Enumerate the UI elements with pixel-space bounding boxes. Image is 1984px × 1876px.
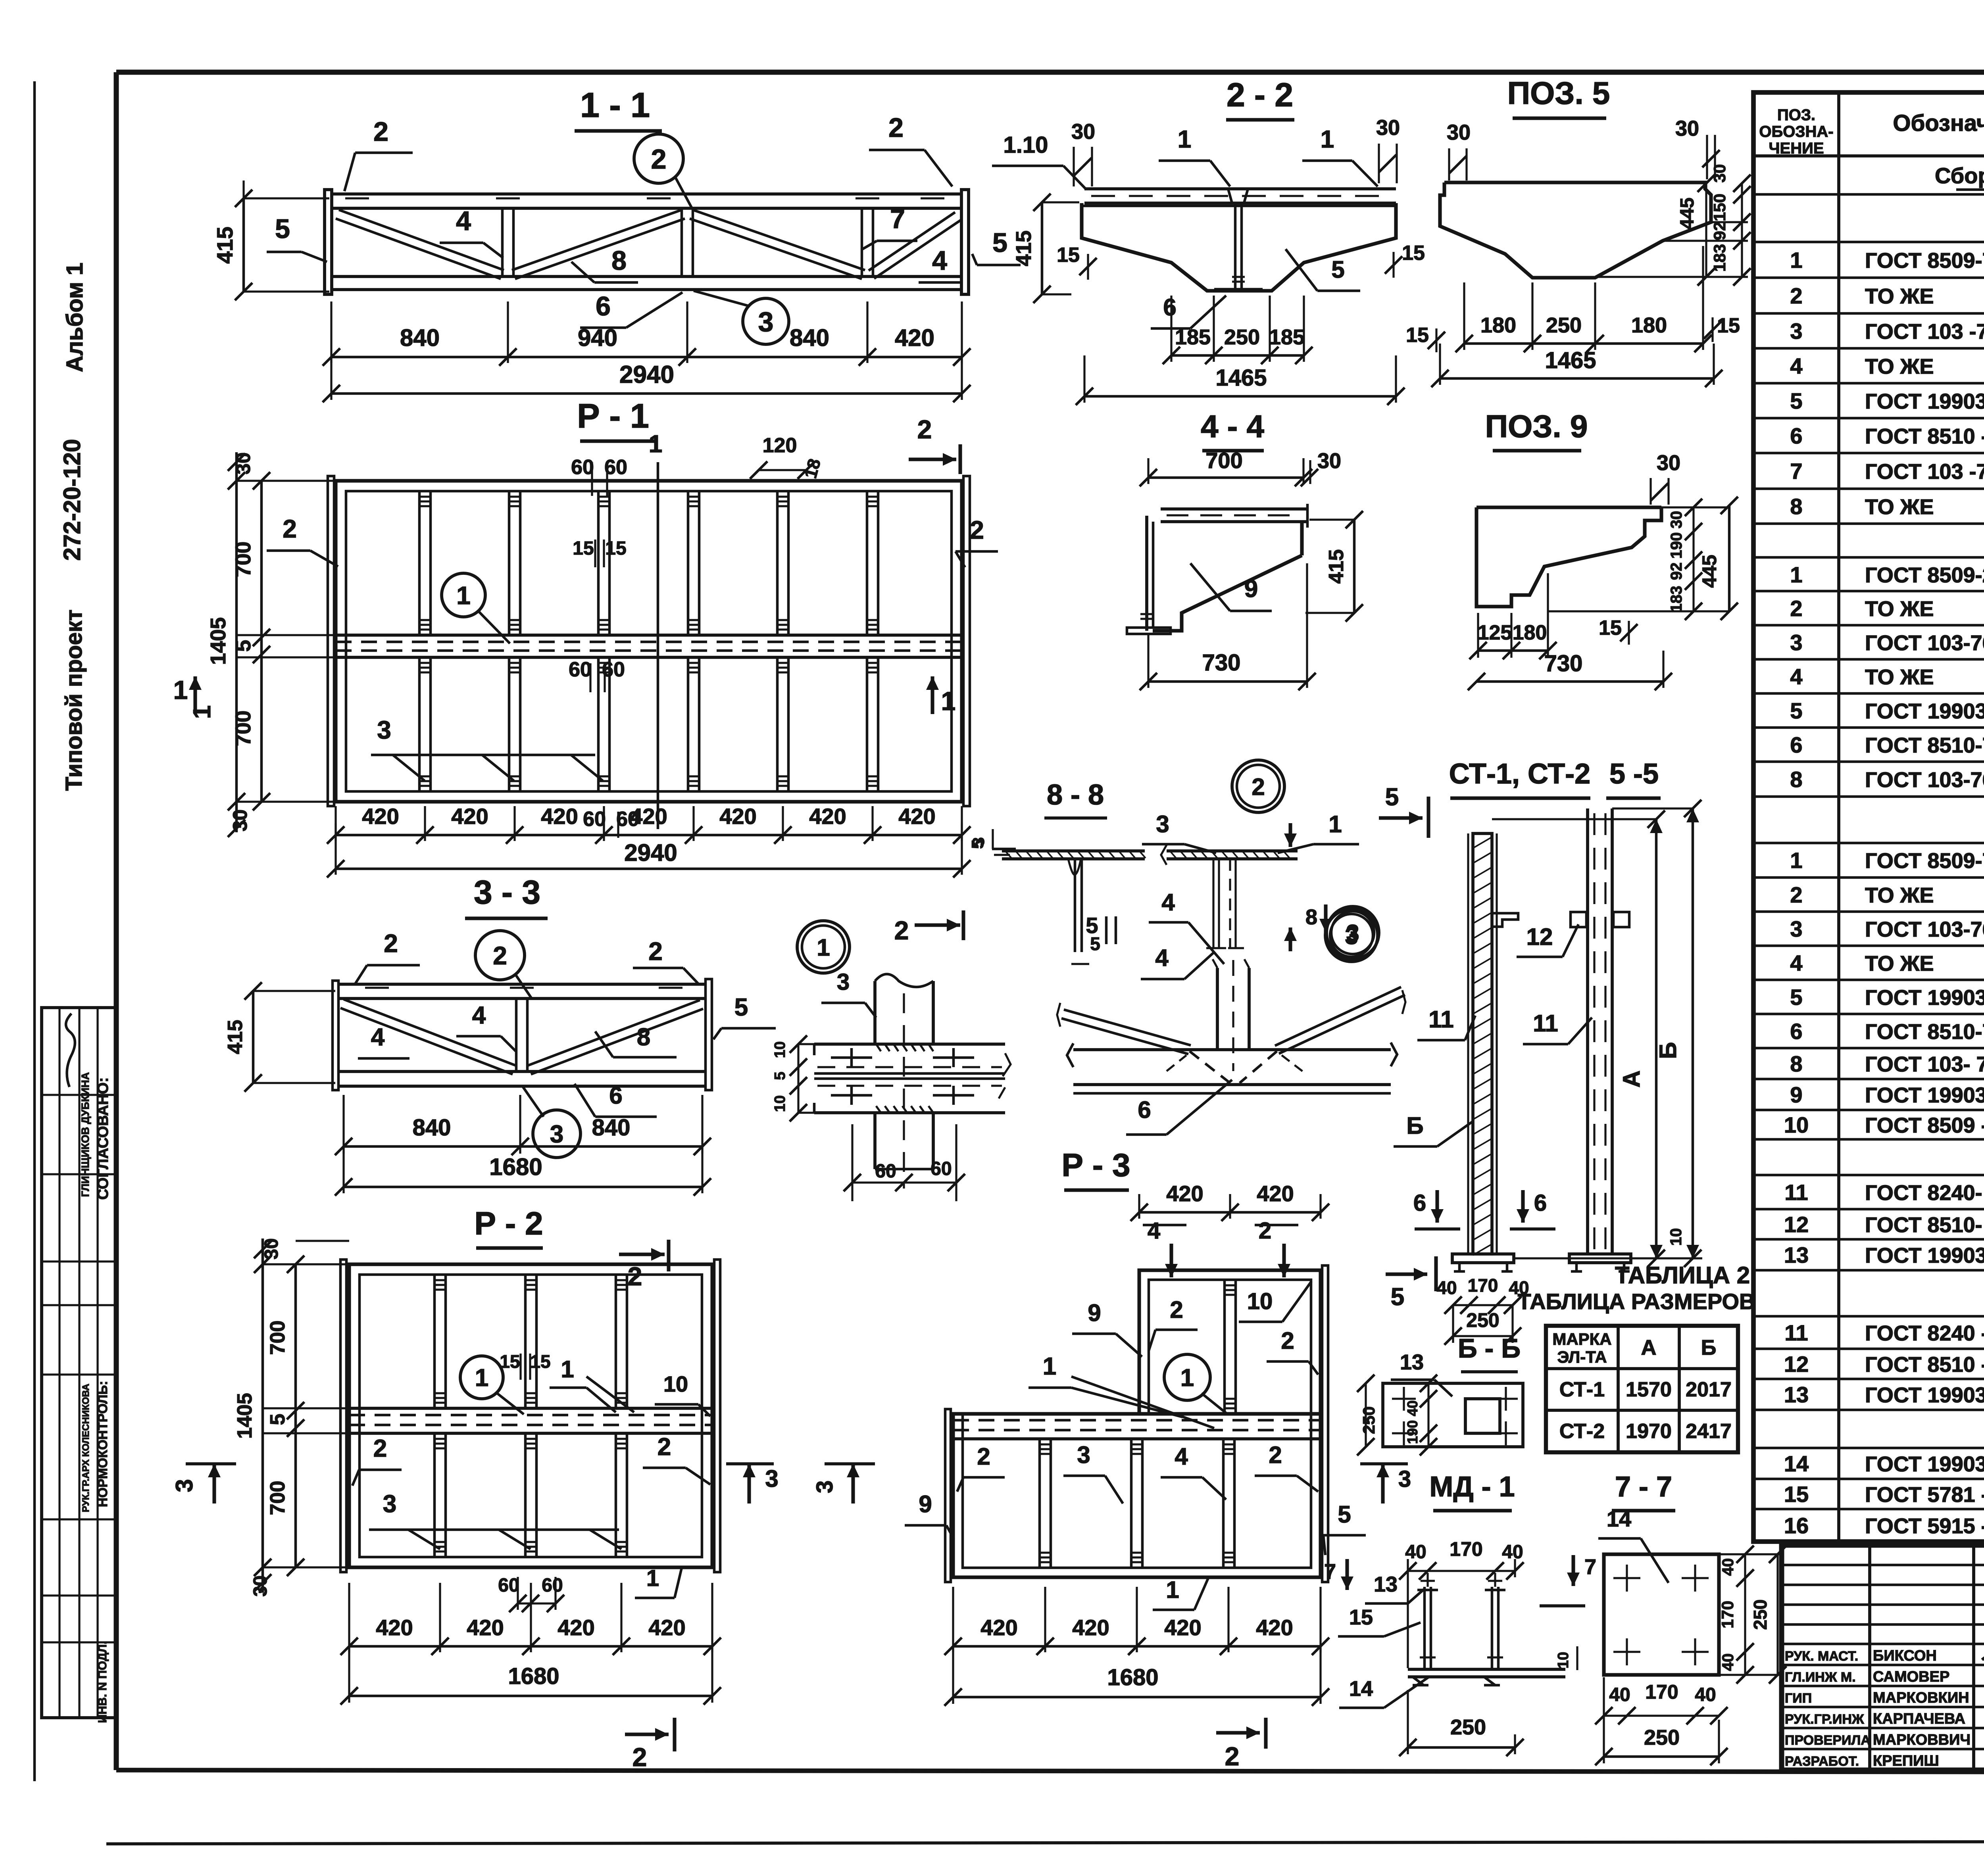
svg-text:ГЛИНЩИКОВ ДУБКИНА: ГЛИНЩИКОВ ДУБКИНА — [79, 1072, 91, 1197]
svg-text:15: 15 — [1057, 244, 1080, 267]
svg-text:5: 5 — [1086, 913, 1098, 938]
svg-text:ГОСТ 5781 -75: ГОСТ 5781 -75 — [1865, 1483, 1984, 1507]
svg-text:30: 30 — [1376, 116, 1400, 140]
svg-text:10: 10 — [1784, 1112, 1809, 1137]
svg-text:4: 4 — [371, 1023, 385, 1051]
svg-text:150: 150 — [1710, 194, 1729, 221]
svg-text:420: 420 — [980, 1615, 1017, 1640]
svg-text:4 - 4: 4 - 4 — [1201, 409, 1265, 444]
svg-text:ТО ЖЕ: ТО ЖЕ — [1865, 952, 1934, 975]
svg-text:840: 840 — [592, 1115, 631, 1141]
svg-text:15: 15 — [605, 538, 626, 559]
svg-text:40: 40 — [1436, 1277, 1457, 1298]
svg-text:ПОЗ.: ПОЗ. — [1777, 106, 1815, 124]
svg-text:2: 2 — [373, 1435, 387, 1462]
svg-text:8: 8 — [1790, 1051, 1802, 1076]
svg-text:ЭЛ-ТА: ЭЛ-ТА — [1557, 1348, 1607, 1366]
svg-text:1: 1 — [456, 581, 471, 610]
svg-text:11: 11 — [1784, 1320, 1808, 1345]
svg-text:12: 12 — [1784, 1212, 1809, 1237]
svg-text:1570: 1570 — [1626, 1378, 1672, 1401]
svg-text:6: 6 — [596, 291, 611, 321]
svg-text:840: 840 — [790, 325, 829, 351]
svg-text:13: 13 — [1374, 1573, 1398, 1596]
svg-text:5: 5 — [1391, 1283, 1404, 1311]
svg-text:4: 4 — [456, 206, 471, 236]
svg-text:1405: 1405 — [233, 1393, 256, 1439]
svg-text:Б: Б — [1655, 1042, 1681, 1059]
svg-text:КАРПАЧЕВА: КАРПАЧЕВА — [1873, 1711, 1965, 1727]
svg-text:2: 2 — [657, 1433, 671, 1461]
svg-text:ГОСТ 103 -76: ГОСТ 103 -76 — [1865, 320, 1984, 344]
svg-text:МД - 1: МД - 1 — [1429, 1471, 1515, 1503]
svg-text:2: 2 — [1225, 1742, 1240, 1771]
svg-text:ГОСТ 8510-72: ГОСТ 8510-72 — [1865, 734, 1984, 757]
svg-text:92: 92 — [1710, 222, 1729, 240]
svg-text:415: 415 — [212, 227, 237, 263]
svg-text:15: 15 — [573, 538, 594, 559]
svg-text:2: 2 — [1790, 882, 1802, 907]
svg-text:15: 15 — [1717, 314, 1740, 337]
svg-text:14: 14 — [1784, 1451, 1809, 1476]
svg-text:420: 420 — [648, 1615, 685, 1640]
svg-text:4: 4 — [1161, 889, 1175, 916]
svg-text:2: 2 — [1170, 1296, 1183, 1323]
svg-text:125: 125 — [1478, 621, 1512, 644]
svg-text:2: 2 — [894, 916, 909, 945]
svg-text:3: 3 — [765, 1465, 778, 1492]
svg-text:5: 5 — [968, 839, 987, 849]
svg-text:60: 60 — [930, 1158, 952, 1179]
svg-text:420: 420 — [362, 804, 399, 829]
svg-text:ТО ЖЕ: ТО ЖЕ — [1865, 597, 1934, 621]
svg-text:940: 940 — [578, 325, 617, 351]
svg-text:ТАБЛИЦА 2: ТАБЛИЦА 2 — [1615, 1262, 1750, 1288]
svg-text:180: 180 — [1480, 313, 1516, 337]
svg-text:1680: 1680 — [1107, 1665, 1158, 1690]
svg-text:7: 7 — [1584, 1555, 1596, 1579]
svg-text:840: 840 — [400, 325, 440, 351]
svg-text:2: 2 — [1259, 1218, 1271, 1244]
svg-text:14: 14 — [1607, 1506, 1631, 1531]
svg-text:ГИП: ГИП — [1785, 1691, 1812, 1706]
svg-text:1: 1 — [173, 675, 188, 705]
svg-text:ТО ЖЕ: ТО ЖЕ — [1865, 665, 1934, 689]
svg-text:2: 2 — [970, 516, 984, 544]
svg-text:Р - 2: Р - 2 — [474, 1206, 543, 1242]
svg-text:3: 3 — [377, 716, 391, 744]
svg-text:ПРОВЕРИЛА: ПРОВЕРИЛА — [1785, 1733, 1871, 1748]
svg-text:6: 6 — [1534, 1190, 1547, 1216]
svg-text:183: 183 — [1710, 244, 1729, 272]
svg-text:2017: 2017 — [1686, 1378, 1732, 1401]
svg-text:МАРКОВКИН: МАРКОВКИН — [1873, 1690, 1969, 1706]
svg-text:170: 170 — [1645, 1681, 1678, 1703]
svg-text:ГОСТ 8510- 72: ГОСТ 8510- 72 — [1865, 1213, 1984, 1237]
svg-text:СТ-1, СТ-2: СТ-1, СТ-2 — [1449, 758, 1590, 790]
svg-text:1.10: 1.10 — [1004, 132, 1048, 158]
svg-text:1 - 1: 1 - 1 — [580, 85, 650, 125]
svg-text:7 - 7: 7 - 7 — [1615, 1471, 1672, 1503]
svg-text:ГОСТ 19903-74: ГОСТ 19903-74 — [1865, 986, 1984, 1010]
svg-text:Р - 1: Р - 1 — [577, 397, 649, 435]
svg-text:4: 4 — [1790, 664, 1802, 689]
svg-text:8: 8 — [637, 1023, 650, 1051]
svg-text:1: 1 — [1790, 562, 1802, 587]
svg-text:ТО ЖЕ: ТО ЖЕ — [1865, 284, 1934, 308]
svg-text:700: 700 — [266, 1321, 289, 1355]
svg-text:МАРКОВВИЧ: МАРКОВВИЧ — [1873, 1732, 1971, 1748]
svg-text:Обозначение: Обозначение — [1893, 110, 1984, 136]
svg-text:2: 2 — [648, 937, 663, 966]
svg-text:7: 7 — [1324, 1560, 1336, 1584]
svg-text:4: 4 — [1175, 1443, 1188, 1470]
svg-text:6: 6 — [609, 1082, 622, 1109]
svg-text:10: 10 — [1667, 1228, 1685, 1246]
svg-text:1: 1 — [1180, 1364, 1194, 1392]
svg-text:2940: 2940 — [624, 839, 677, 866]
svg-text:60: 60 — [571, 456, 594, 479]
svg-text:6: 6 — [1790, 1019, 1802, 1044]
svg-text:420: 420 — [809, 804, 846, 829]
svg-text:3: 3 — [383, 1490, 396, 1518]
svg-text:1405: 1405 — [206, 617, 230, 665]
svg-text:1: 1 — [817, 934, 830, 961]
svg-text:840: 840 — [413, 1115, 451, 1141]
svg-text:5: 5 — [734, 994, 748, 1021]
svg-text:30: 30 — [1071, 120, 1095, 144]
svg-text:60: 60 — [569, 658, 592, 681]
svg-text:92: 92 — [1668, 563, 1685, 580]
svg-text:700: 700 — [1205, 448, 1242, 473]
svg-text:ТАБЛИЦА РАЗМЕРОВ: ТАБЛИЦА РАЗМЕРОВ — [1518, 1289, 1755, 1314]
svg-text:700: 700 — [266, 1481, 289, 1515]
svg-text:3 - 3: 3 - 3 — [474, 874, 540, 911]
svg-text:ГОСТ 103-76: ГОСТ 103-76 — [1865, 631, 1984, 655]
svg-text:250: 250 — [1359, 1406, 1378, 1434]
svg-text:1: 1 — [1790, 248, 1802, 273]
svg-text:2940: 2940 — [619, 361, 674, 388]
svg-text:1: 1 — [646, 1565, 659, 1591]
svg-text:40: 40 — [1404, 1400, 1421, 1416]
svg-text:5: 5 — [992, 228, 1007, 258]
svg-text:30: 30 — [1710, 164, 1729, 183]
svg-text:180: 180 — [1513, 621, 1547, 644]
svg-text:10: 10 — [772, 1041, 788, 1058]
svg-text:ГОСТ 103 -76: ГОСТ 103 -76 — [1865, 460, 1984, 484]
svg-text:6: 6 — [1790, 732, 1802, 757]
svg-text:13: 13 — [1400, 1350, 1424, 1374]
svg-text:5: 5 — [275, 214, 290, 244]
svg-text:8: 8 — [1790, 767, 1802, 792]
svg-text:СТ-1: СТ-1 — [1559, 1378, 1605, 1401]
svg-text:8 - 8: 8 - 8 — [1047, 779, 1104, 811]
svg-text:700: 700 — [231, 710, 255, 746]
svg-text:4: 4 — [1155, 945, 1169, 971]
svg-text:420: 420 — [895, 325, 934, 351]
svg-text:190: 190 — [1404, 1420, 1421, 1444]
svg-text:ГОСТ 19903- 74: ГОСТ 19903- 74 — [1865, 1383, 1984, 1407]
svg-text:60: 60 — [875, 1161, 896, 1182]
svg-text:10: 10 — [1555, 1652, 1572, 1669]
svg-text:ГОСТ 5915 -70: ГОСТ 5915 -70 — [1865, 1514, 1984, 1538]
svg-text:13: 13 — [1784, 1242, 1809, 1267]
svg-text:2: 2 — [283, 515, 297, 543]
svg-text:6: 6 — [1163, 294, 1176, 321]
svg-text:3: 3 — [1077, 1442, 1090, 1468]
svg-text:3: 3 — [1790, 319, 1802, 344]
svg-text:ГЛ.ИНЖ М.: ГЛ.ИНЖ М. — [1785, 1670, 1856, 1685]
svg-text:1: 1 — [1178, 126, 1191, 153]
svg-text:40: 40 — [1609, 1684, 1630, 1705]
svg-text:30: 30 — [1668, 511, 1685, 529]
svg-text:8: 8 — [1790, 494, 1802, 519]
svg-text:4: 4 — [472, 1002, 486, 1029]
svg-text:Б - Б: Б - Б — [1458, 1333, 1521, 1363]
svg-text:14: 14 — [1349, 1677, 1373, 1701]
svg-text:КРЕПИШ: КРЕПИШ — [1873, 1753, 1939, 1769]
svg-text:Р - 3: Р - 3 — [1061, 1147, 1130, 1183]
svg-text:ГОСТ 19903-74: ГОСТ 19903-74 — [1865, 699, 1984, 723]
svg-text:1: 1 — [1328, 811, 1342, 837]
svg-text:ГОСТ 8240- 72: ГОСТ 8240- 72 — [1865, 1181, 1984, 1205]
svg-text:3: 3 — [1790, 916, 1802, 941]
svg-text:30: 30 — [1447, 121, 1471, 144]
svg-text:1: 1 — [188, 705, 216, 719]
svg-text:4: 4 — [1148, 1218, 1160, 1244]
svg-text:272-20-120: 272-20-120 — [59, 439, 85, 561]
svg-text:ГОСТ 8509-72: ГОСТ 8509-72 — [1865, 849, 1984, 873]
svg-text:3: 3 — [171, 1479, 198, 1492]
svg-text:8: 8 — [1305, 905, 1317, 929]
svg-text:12: 12 — [1526, 924, 1553, 950]
svg-text:420: 420 — [376, 1615, 413, 1640]
svg-text:ГОСТ 8509-72: ГОСТ 8509-72 — [1865, 249, 1984, 273]
svg-text:3: 3 — [1790, 630, 1802, 655]
svg-text:5: 5 — [772, 1071, 788, 1080]
svg-text:60: 60 — [498, 1575, 519, 1596]
svg-text:5: 5 — [1338, 1501, 1351, 1528]
svg-text:5: 5 — [1790, 388, 1802, 413]
svg-text:ПОЗ. 5: ПОЗ. 5 — [1507, 75, 1610, 111]
svg-text:4: 4 — [932, 246, 947, 276]
svg-text:6: 6 — [1790, 423, 1802, 448]
svg-text:10: 10 — [1247, 1288, 1273, 1314]
svg-text:2: 2 — [651, 144, 667, 175]
svg-text:1680: 1680 — [489, 1154, 542, 1180]
svg-text:7: 7 — [890, 204, 905, 234]
svg-text:1970: 1970 — [1626, 1420, 1672, 1443]
svg-text:Б: Б — [1406, 1112, 1423, 1139]
svg-text:15: 15 — [1784, 1482, 1809, 1507]
svg-text:1: 1 — [1321, 126, 1334, 153]
svg-text:3: 3 — [1156, 811, 1169, 837]
svg-text:НОРМОКОНТРОЛЬ:: НОРМОКОНТРОЛЬ: — [95, 1381, 110, 1507]
svg-text:2: 2 — [373, 117, 388, 147]
svg-text:8: 8 — [611, 246, 627, 276]
svg-text:415: 415 — [224, 1020, 247, 1054]
svg-text:420: 420 — [630, 804, 667, 829]
svg-text:10: 10 — [772, 1095, 788, 1112]
svg-text:2: 2 — [917, 415, 932, 444]
svg-text:15: 15 — [1406, 324, 1429, 347]
svg-text:420: 420 — [1166, 1181, 1203, 1206]
svg-text:40: 40 — [1502, 1542, 1523, 1563]
svg-text:420: 420 — [1164, 1615, 1201, 1640]
svg-text:30: 30 — [1317, 449, 1341, 473]
svg-text:2: 2 — [632, 1742, 647, 1772]
svg-text:1: 1 — [475, 1364, 488, 1392]
svg-text:15: 15 — [1599, 616, 1622, 639]
svg-text:4: 4 — [1790, 950, 1802, 975]
svg-text:12: 12 — [1784, 1352, 1809, 1377]
svg-text:9: 9 — [1790, 1082, 1802, 1107]
svg-text:250: 250 — [1644, 1726, 1680, 1749]
svg-text:ГОСТ 19903-74: ГОСТ 19903-74 — [1865, 1244, 1984, 1267]
svg-text:700: 700 — [231, 541, 255, 577]
svg-text:ГОСТ 103-76: ГОСТ 103-76 — [1865, 918, 1984, 941]
svg-text:4: 4 — [1790, 353, 1802, 378]
svg-text:190: 190 — [1668, 532, 1685, 559]
svg-text:5: 5 — [1790, 698, 1802, 723]
svg-text:420: 420 — [1256, 1615, 1293, 1640]
svg-text:РУК.ГР.АРХ КОЛЕСНИКОВА: РУК.ГР.АРХ КОЛЕСНИКОВА — [81, 1384, 91, 1512]
svg-text:250: 250 — [1750, 1599, 1771, 1630]
svg-text:3: 3 — [812, 1480, 838, 1493]
svg-text:7: 7 — [1790, 459, 1802, 484]
svg-text:ГОСТ 19903 -74: ГОСТ 19903 -74 — [1865, 390, 1984, 413]
svg-text:2: 2 — [1252, 774, 1265, 800]
svg-text:5: 5 — [231, 640, 255, 652]
svg-text:1: 1 — [1790, 848, 1802, 873]
svg-text:11: 11 — [1784, 1180, 1808, 1205]
svg-text:15: 15 — [1349, 1605, 1373, 1629]
svg-text:16: 16 — [1784, 1513, 1809, 1538]
svg-text:250: 250 — [1546, 313, 1582, 337]
svg-text:180: 180 — [1631, 313, 1667, 337]
svg-text:ГОСТ 8510-72: ГОСТ 8510-72 — [1865, 1020, 1984, 1044]
svg-text:МАРКА: МАРКА — [1552, 1330, 1611, 1348]
svg-text:Б: Б — [1701, 1336, 1717, 1359]
svg-text:2: 2 — [888, 113, 904, 143]
svg-text:60: 60 — [542, 1575, 563, 1596]
svg-text:1465: 1465 — [1215, 365, 1267, 391]
svg-text:2: 2 — [384, 929, 398, 958]
svg-text:250: 250 — [1466, 1309, 1499, 1331]
svg-text:9: 9 — [1088, 1300, 1101, 1326]
svg-text:ОБОЗНА-: ОБОЗНА- — [1759, 123, 1833, 140]
svg-text:СОГЛАСОВАНО:: СОГЛАСОВАНО: — [95, 1077, 112, 1200]
svg-text:40: 40 — [1719, 1653, 1737, 1671]
svg-text:5 -5: 5 -5 — [1609, 758, 1659, 790]
svg-text:ИНВ. N ПОДЛ.: ИНВ. N ПОДЛ. — [96, 1641, 109, 1723]
svg-text:РАЗРАБОТ.: РАЗРАБОТ. — [1785, 1754, 1859, 1769]
svg-text:15: 15 — [500, 1351, 520, 1372]
svg-text:2: 2 — [1281, 1327, 1294, 1354]
svg-text:5: 5 — [1331, 256, 1344, 283]
svg-text:2: 2 — [1790, 596, 1802, 621]
svg-text:А: А — [1618, 1070, 1645, 1087]
svg-text:250: 250 — [1224, 325, 1260, 349]
svg-text:170: 170 — [1450, 1538, 1482, 1560]
svg-text:420: 420 — [467, 1615, 504, 1640]
svg-text:420: 420 — [1257, 1181, 1294, 1206]
svg-text:2: 2 — [1269, 1442, 1282, 1468]
svg-text:10: 10 — [663, 1371, 688, 1396]
svg-text:Сборочные единицы и детали: Сборочные единицы и детали — [1935, 163, 1984, 188]
svg-text:420: 420 — [1072, 1615, 1109, 1640]
svg-text:2: 2 — [977, 1443, 990, 1470]
svg-text:9: 9 — [919, 1491, 932, 1517]
svg-text:3: 3 — [758, 306, 774, 337]
svg-text:415: 415 — [1012, 230, 1036, 266]
svg-text:СТ-2: СТ-2 — [1559, 1420, 1605, 1443]
svg-text:РУК. МАСТ.: РУК. МАСТ. — [1785, 1649, 1858, 1664]
svg-text:САМОВЕР: САМОВЕР — [1873, 1669, 1949, 1685]
svg-text:60: 60 — [583, 808, 606, 831]
svg-text:ГОСТ 8510 - 72: ГОСТ 8510 - 72 — [1865, 1353, 1984, 1377]
svg-text:Альбом 1: Альбом 1 — [62, 263, 88, 372]
svg-text:30: 30 — [229, 809, 251, 831]
svg-text:2: 2 — [493, 941, 507, 970]
svg-text:ГОСТ 8240 - 72: ГОСТ 8240 - 72 — [1865, 1321, 1984, 1345]
svg-text:11: 11 — [1533, 1010, 1558, 1037]
svg-text:30: 30 — [1675, 117, 1699, 140]
svg-text:420: 420 — [541, 804, 578, 829]
svg-text:ГОСТ 8510 -72: ГОСТ 8510 -72 — [1865, 424, 1984, 448]
svg-text:11: 11 — [1428, 1006, 1453, 1033]
svg-text:420: 420 — [558, 1615, 594, 1640]
svg-text:170: 170 — [1718, 1601, 1737, 1628]
svg-text:1680: 1680 — [508, 1663, 559, 1689]
svg-text:420: 420 — [719, 804, 756, 829]
svg-text:1: 1 — [1166, 1576, 1179, 1603]
svg-text:13: 13 — [1784, 1382, 1809, 1407]
svg-text:ГОСТ 19903-74: ГОСТ 19903-74 — [1865, 1083, 1984, 1107]
svg-text:6: 6 — [1138, 1096, 1151, 1123]
svg-text:2: 2 — [1790, 283, 1802, 308]
svg-text:183: 183 — [1668, 586, 1685, 613]
svg-text:Типовой проект: Типовой проект — [61, 609, 87, 791]
svg-text:ГОСТ 8509 -72: ГОСТ 8509 -72 — [1865, 1114, 1984, 1137]
svg-text:ТО ЖЕ: ТО ЖЕ — [1865, 883, 1934, 907]
svg-text:415: 415 — [1325, 549, 1348, 584]
svg-text:ТО ЖЕ: ТО ЖЕ — [1865, 355, 1934, 378]
svg-text:250: 250 — [1450, 1715, 1486, 1739]
svg-text:ГОСТ 8509-2: ГОСТ 8509-2 — [1865, 563, 1984, 587]
svg-text:6: 6 — [1413, 1190, 1426, 1216]
svg-text:БИКСОН: БИКСОН — [1873, 1648, 1937, 1664]
svg-text:420: 420 — [451, 804, 488, 829]
svg-text:1: 1 — [941, 686, 956, 716]
svg-text:5: 5 — [1790, 985, 1802, 1010]
svg-text:185: 185 — [1175, 325, 1211, 349]
svg-text:1: 1 — [649, 430, 662, 458]
svg-text:2 - 2: 2 - 2 — [1227, 76, 1293, 113]
svg-text:445: 445 — [1698, 555, 1721, 588]
svg-text:1465: 1465 — [1545, 348, 1596, 373]
svg-text:15: 15 — [1402, 242, 1425, 265]
svg-text:3: 3 — [1345, 923, 1358, 949]
svg-text:40: 40 — [1695, 1684, 1716, 1705]
svg-text:3: 3 — [1398, 1466, 1411, 1492]
svg-text:5: 5 — [266, 1414, 289, 1425]
svg-text:1: 1 — [561, 1356, 574, 1383]
svg-text:ГОСТ 19903 -74: ГОСТ 19903 -74 — [1865, 1452, 1984, 1476]
svg-text:А: А — [1641, 1336, 1657, 1359]
svg-text:ГОСТ 103-76: ГОСТ 103-76 — [1865, 768, 1984, 792]
svg-text:1: 1 — [1043, 1353, 1056, 1380]
